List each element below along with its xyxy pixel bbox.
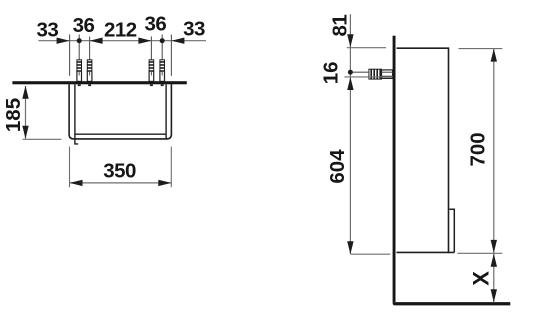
ext line 700 top — [459, 48, 503, 50]
arrow 212 right — [138, 38, 151, 44]
dot screw1 — [77, 38, 82, 43]
dim 700 arrow down — [491, 240, 497, 253]
svg-text:X: X — [469, 271, 494, 286]
dim 81 arrow down — [347, 34, 353, 47]
arrow 33L — [57, 38, 70, 44]
svg-text:36: 36 — [144, 13, 166, 36]
anchor A1 — [77, 60, 82, 86]
svg-text:36: 36 — [73, 14, 95, 37]
ext line 16 lower — [344, 76, 392, 78]
svg-text:604: 604 — [326, 149, 349, 184]
ext line cabinet bottom left — [351, 253, 390, 255]
dim 350 arrow right — [158, 180, 171, 186]
screw axis line — [353, 71, 369, 73]
ext line 700 bottom / X top — [457, 252, 502, 254]
dim 350 ext left — [69, 147, 71, 188]
anchor side view — [369, 69, 393, 79]
dim 350 ext right — [170, 147, 172, 188]
cabinet outline (top view) — [69, 84, 171, 139]
arrow 33R — [171, 38, 184, 44]
cabinet inner right wall — [166, 84, 168, 139]
svg-text:700: 700 — [467, 132, 490, 166]
floor line — [393, 302, 511, 305]
door (side view) — [449, 209, 454, 252]
dim 16 arrow up — [347, 77, 353, 90]
dim 185 arrow up — [22, 86, 28, 99]
dim line top chain — [38, 40, 206, 42]
dim 350 line — [70, 182, 172, 184]
dim 185 ext line — [23, 138, 62, 140]
cabinet inner bottom (door back edge) — [75, 133, 166, 135]
shaft screw4 — [161, 35, 163, 60]
cabinet inner left wall — [75, 84, 78, 144]
dim 185 line — [25, 86, 27, 139]
cabinet (side view) — [397, 48, 449, 252]
ext line cabinet top — [347, 47, 386, 49]
dim X arrow up — [491, 254, 497, 267]
dim line left column (81/16/604) — [349, 14, 351, 254]
anchor A3 — [149, 60, 154, 86]
svg-text:185: 185 — [2, 98, 25, 132]
cabinet bottom extension under door — [449, 251, 455, 253]
dim 350 arrow left — [70, 180, 83, 186]
ext tick screw3 — [150, 37, 152, 60]
svg-text:212: 212 — [104, 19, 137, 42]
ext tick right edge — [170, 35, 172, 76]
anchor A2 — [87, 60, 92, 86]
arrow 212 left — [90, 38, 103, 44]
svg-text:81: 81 — [328, 15, 351, 37]
dim 700 arrow up — [491, 49, 497, 62]
dot screw side — [348, 70, 353, 75]
dim 185 arrow down — [22, 126, 28, 139]
svg-text:33: 33 — [183, 18, 205, 41]
wall line (left view) — [12, 81, 186, 84]
dim X arrow down — [491, 289, 497, 302]
dot screw4 — [160, 38, 165, 43]
anchor A4 — [160, 60, 165, 86]
dim line right column (700/X) — [493, 49, 495, 303]
svg-text:350: 350 — [103, 159, 136, 182]
wall line (side view) — [393, 36, 396, 302]
shaft screw1 — [78, 35, 80, 60]
ext tick left edge — [69, 35, 71, 76]
svg-text:16: 16 — [320, 61, 343, 84]
ext tick screw2 — [89, 37, 91, 60]
dim 604 arrow down — [347, 241, 353, 254]
svg-text:33: 33 — [36, 19, 58, 42]
